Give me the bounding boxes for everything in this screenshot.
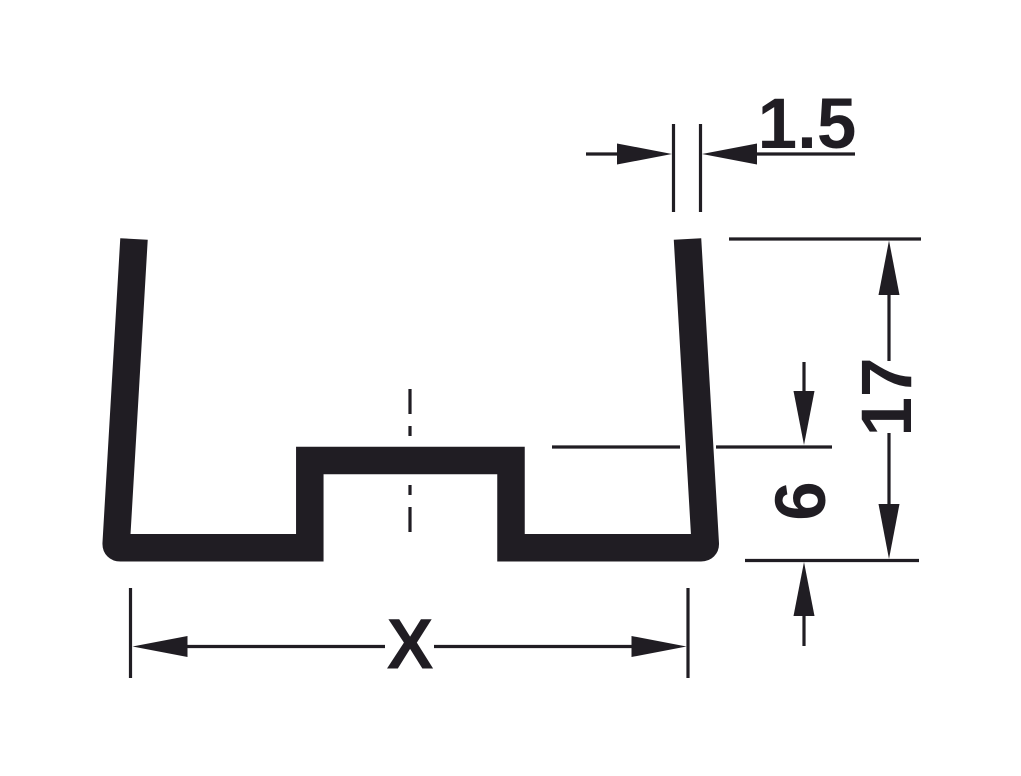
dimension 1.5: left arrowhead pointing right bbox=[617, 144, 672, 165]
dimension 1.5: left extension line bbox=[672, 124, 675, 212]
dimension 1.5: right arrowhead pointing left bbox=[702, 144, 757, 165]
dimension 6: lower leader line bbox=[802, 614, 805, 646]
dimension X: left dimension line segment bbox=[185, 645, 385, 648]
dimension 17: lower arrowhead pointing down bbox=[879, 504, 900, 559]
dimension X: left extension line bbox=[129, 588, 132, 678]
svg-text:X: X bbox=[386, 606, 433, 685]
dimension 17: upper arrowhead pointing up bbox=[879, 241, 900, 296]
dimension 6: reference line at ridge top (right part) bbox=[716, 445, 832, 448]
dimension 17: upper dimension line segment bbox=[887, 293, 890, 361]
dimension 6: reference line at ridge top (left part) bbox=[552, 445, 680, 448]
dimension 1.5: left leader line bbox=[586, 152, 620, 155]
dimension X: right extension line bbox=[686, 588, 689, 678]
dimension 6: lower arrowhead pointing up bbox=[794, 562, 815, 616]
profile outline (channel with center ridge) bbox=[116, 239, 705, 548]
dimension 1.5: right extension line bbox=[699, 124, 702, 212]
dimension 6: upper arrowhead pointing down bbox=[794, 391, 815, 445]
dimension 6: upper leader line bbox=[802, 362, 805, 394]
svg-text:17: 17 bbox=[848, 358, 927, 437]
dimension 17: lower dimension line segment bbox=[887, 433, 890, 506]
dimension X: right arrowhead pointing right bbox=[632, 636, 687, 657]
dimension X: left arrowhead pointing left bbox=[133, 636, 188, 657]
dimension 17: bottom reference line bbox=[745, 559, 919, 562]
svg-text:1.5: 1.5 bbox=[758, 85, 857, 164]
dimension 1.5: right leader line bbox=[755, 152, 855, 155]
centerline (dash-dot) of profile bump bbox=[408, 389, 411, 532]
dimension 17: top reference line bbox=[729, 237, 921, 240]
svg-text:6: 6 bbox=[762, 481, 841, 521]
dimension X: right dimension line segment bbox=[434, 645, 634, 648]
